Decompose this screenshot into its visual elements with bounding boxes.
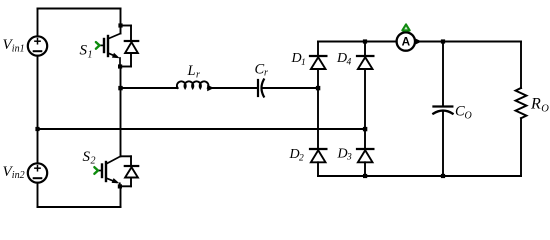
- wire left upper (Vin1 top lead): [37, 9, 39, 37]
- svg-text:A: A: [402, 34, 411, 48]
- node mid rail right (bridge AC input): [363, 127, 367, 131]
- label D1: [291, 51, 306, 68]
- wire D1 top lead: [317, 42, 319, 56]
- diode D1: [310, 56, 326, 69]
- label D3: [337, 146, 353, 162]
- wire output bottom rail: [318, 175, 521, 177]
- current direction arrow: [415, 38, 422, 44]
- wire top rail: [38, 8, 121, 10]
- svg-text:O: O: [465, 110, 472, 121]
- label S2: [83, 149, 96, 167]
- ammeter flag (green): [402, 24, 409, 30]
- node bridge left AC input: [316, 86, 320, 90]
- svg-text:in2: in2: [12, 170, 25, 181]
- ammeter A: [397, 32, 415, 50]
- wire Co top lead: [442, 42, 444, 106]
- wire D4 top lead: [364, 42, 366, 56]
- wire S1 collector drop: [120, 9, 122, 34]
- wire resonant left: [121, 87, 178, 89]
- svg-text:L: L: [187, 63, 196, 79]
- label Vin2: [3, 164, 25, 181]
- svg-text:R: R: [530, 96, 541, 113]
- label D4: [336, 51, 352, 67]
- svg-text:C: C: [455, 103, 465, 119]
- wire bridge top rail: [318, 41, 397, 43]
- wire D2 bottom lead: [317, 162, 319, 176]
- label Ro: [530, 96, 549, 115]
- source Vin1: [28, 36, 47, 55]
- svg-text:1: 1: [301, 58, 306, 68]
- node Co bottom: [441, 174, 445, 178]
- resistor Ro: [516, 88, 527, 118]
- wire ammeter to load: [415, 41, 521, 43]
- diode of S2 (antiparallel): [120, 156, 138, 186]
- svg-text:1: 1: [88, 50, 93, 61]
- source Vin2: [28, 163, 47, 182]
- svg-text:O: O: [541, 103, 549, 114]
- inductor Lr: [177, 81, 209, 88]
- diode D2: [310, 149, 326, 162]
- diode D3: [357, 149, 373, 162]
- node S1 emitter junction: [118, 64, 122, 68]
- svg-text:D: D: [289, 147, 300, 162]
- wire left middle (Vin1 to Vin2): [37, 56, 39, 164]
- node S2 emitter junction: [118, 184, 122, 188]
- node Co top: [441, 39, 445, 43]
- svg-text:4: 4: [347, 57, 352, 67]
- gate arrow S1 (green): [96, 42, 100, 49]
- gate arrow S2 (green): [94, 167, 98, 174]
- svg-text:D: D: [337, 146, 348, 161]
- label D2: [289, 147, 305, 163]
- capacitor Cr: [258, 80, 264, 97]
- wire S2 to bottom rail: [120, 186, 122, 207]
- diode of S1 (antiparallel): [120, 26, 138, 67]
- capacitor Co: [433, 107, 452, 114]
- svg-text:r: r: [196, 69, 200, 80]
- label Co: [455, 103, 472, 121]
- wire Co bottom lead: [442, 111, 444, 176]
- wire bottom rail: [38, 206, 121, 208]
- label S1: [80, 43, 93, 61]
- transistor S1 (IGBT): [100, 34, 121, 67]
- wire Cr to bridge: [262, 87, 318, 89]
- diode D4: [357, 56, 373, 69]
- svg-text:C: C: [255, 61, 265, 77]
- wire mid rail: [38, 128, 366, 130]
- svg-text:2: 2: [299, 153, 304, 163]
- inductor current arrow: [207, 85, 214, 91]
- wire D3 bottom lead: [364, 162, 366, 176]
- transistor S2 (IGBT): [98, 156, 121, 186]
- node D4 top: [363, 39, 367, 43]
- wire coil to Cr: [210, 87, 257, 89]
- svg-text:2: 2: [91, 156, 96, 167]
- wire S branch middle: [120, 67, 122, 157]
- node S1 collector junction: [118, 23, 122, 27]
- wire bridge right column middle: [364, 69, 366, 148]
- svg-text:S: S: [80, 43, 88, 59]
- svg-text:D: D: [291, 51, 302, 66]
- wire left lower (Vin2 bottom lead): [37, 183, 39, 207]
- wire bridge left column middle: [317, 69, 319, 148]
- svg-text:D: D: [336, 51, 347, 66]
- svg-text:S: S: [83, 149, 91, 165]
- label Lr: [187, 63, 201, 80]
- svg-text:3: 3: [346, 153, 352, 163]
- svg-text:r: r: [264, 68, 268, 79]
- wire right branch lower: [520, 118, 522, 176]
- wire right branch upper: [520, 42, 522, 89]
- label Vin1: [3, 37, 25, 54]
- node mid rail left: [35, 127, 39, 131]
- label Cr: [255, 61, 269, 78]
- svg-text:in1: in1: [12, 43, 25, 54]
- node resonant tap: [118, 86, 122, 90]
- node D3 bottom: [363, 174, 367, 178]
